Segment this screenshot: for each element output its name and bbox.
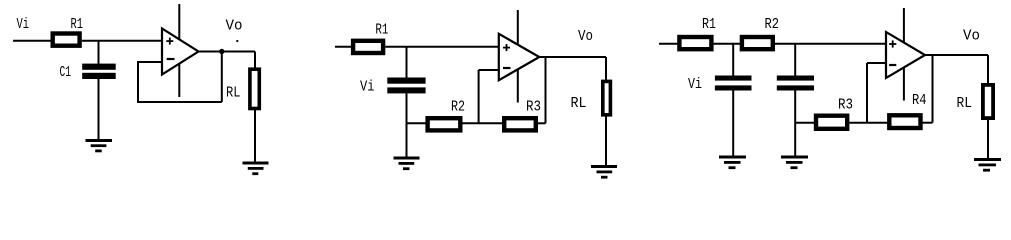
svg-text:R3: R3 bbox=[526, 99, 541, 116]
resistor R1 bbox=[53, 34, 80, 46]
wire: output corner down to RL bbox=[605, 57, 607, 81]
wire: input to R1 bbox=[13, 40, 53, 42]
svg-text:Vo: Vo bbox=[226, 17, 243, 34]
wire: node down to C1 bbox=[98, 41, 100, 64]
wire: node down to capacitor bbox=[406, 47, 408, 78]
wire: capacitor C2 down to R3 branch and ground bbox=[794, 91, 796, 157]
resistor R2 (circuit 3) bbox=[742, 37, 773, 49]
wire: op-amp output to RL branch bbox=[199, 51, 256, 53]
wire: branch to R2 bbox=[407, 122, 429, 124]
resistor R3 (circuit 2) bbox=[504, 118, 536, 130]
wire: R1 to op-amp + input bbox=[82, 40, 162, 42]
wire: feedback riser to output bbox=[932, 55, 934, 123]
wire: R1 to op-amp + input bbox=[385, 46, 499, 48]
svg-text:Vo: Vo bbox=[963, 28, 980, 45]
wire: input to R1 bbox=[335, 46, 353, 48]
wire: C1 to ground bbox=[98, 79, 100, 140]
wire: feedback bottom horizontal bbox=[137, 101, 222, 103]
wire: input to R1 bbox=[659, 43, 680, 45]
wire: minus input stub bbox=[479, 69, 499, 71]
wire: R3 to feedback riser bbox=[538, 122, 546, 124]
wire: op-amp output to RL branch bbox=[925, 54, 988, 56]
op-amp U3 power line bbox=[903, 8, 905, 101]
svg-text:R3: R3 bbox=[838, 97, 853, 114]
ground below capacitor (circuit 2) bbox=[394, 157, 420, 171]
wire: op-amp output to RL branch bbox=[539, 56, 606, 58]
op-amp U3 minus input symbol bbox=[889, 64, 896, 66]
svg-text:Vi: Vi bbox=[688, 76, 702, 93]
op-amp U1 minus input symbol bbox=[167, 58, 175, 60]
resistor RL (circuit 3) bbox=[983, 85, 993, 118]
resistor R1 (circuit 3) bbox=[679, 37, 711, 49]
ground below RL (circuit 2) bbox=[591, 165, 617, 179]
svg-text:C1: C1 bbox=[60, 64, 72, 81]
svg-text:RL: RL bbox=[226, 84, 241, 101]
op-amp U1 plus input symbol bbox=[166, 38, 173, 45]
wire: R2 to R3 bbox=[462, 122, 505, 124]
svg-text:R1: R1 bbox=[71, 16, 84, 33]
wire: R2 to op-amp + input bbox=[775, 43, 886, 45]
wire: RL to ground bbox=[987, 118, 989, 159]
wire: mid node up to minus input bbox=[866, 63, 868, 123]
svg-text:R1: R1 bbox=[375, 22, 388, 39]
svg-text:Vi: Vi bbox=[17, 16, 30, 33]
capacitor C1 bbox=[82, 64, 116, 79]
op-amp U3 plus input symbol bbox=[889, 40, 896, 47]
ground below RL bbox=[243, 162, 269, 176]
resistor R2 (circuit 2) bbox=[428, 118, 461, 130]
ground below C1 (circuit 3) bbox=[719, 156, 746, 170]
wire: feedback left vertical bbox=[137, 61, 139, 102]
wire: RL to ground bbox=[254, 110, 256, 162]
svg-text:RL: RL bbox=[571, 95, 587, 112]
wire: minus input stub bbox=[867, 62, 886, 64]
ground below C1 bbox=[86, 139, 113, 152]
wire: node down to capacitor C1 bbox=[732, 44, 734, 76]
wire: minus input stub bbox=[138, 61, 162, 63]
wire: node down to capacitor C2 bbox=[794, 44, 796, 76]
svg-text:Vo: Vo bbox=[578, 28, 593, 45]
capacitor (circuit 2) bbox=[387, 78, 425, 94]
ground below RL (circuit 3) bbox=[974, 158, 1001, 172]
node: output junction dot bbox=[219, 49, 224, 54]
resistor RL (load) bbox=[250, 69, 259, 108]
op-amp U3 bbox=[886, 32, 925, 78]
wire: feedback riser to output bbox=[545, 57, 547, 123]
wire: capacitor to ground bbox=[406, 93, 408, 157]
svg-text:R2: R2 bbox=[765, 16, 780, 33]
op-amp U2 minus input symbol bbox=[503, 67, 511, 69]
svg-text:Vi: Vi bbox=[360, 79, 375, 96]
resistor RL (circuit 2) bbox=[603, 81, 611, 114]
wire: branch to R3 bbox=[795, 122, 816, 124]
capacitor C2 (circuit 3) bbox=[777, 76, 814, 91]
wire: output corner down to RL bbox=[254, 52, 256, 71]
op-amp U1 power line bbox=[178, 4, 180, 97]
capacitor C1 (circuit 3) bbox=[715, 76, 752, 91]
wire: capacitor C1 to ground bbox=[732, 91, 734, 157]
op-amp U2 power line bbox=[517, 10, 519, 103]
wire: RL to ground bbox=[605, 115, 607, 166]
op-amp U2 bbox=[499, 34, 540, 80]
op-amp U2 plus input symbol bbox=[503, 44, 510, 51]
resistor R3 (circuit 3) bbox=[816, 116, 847, 129]
svg-text:R2: R2 bbox=[451, 99, 465, 116]
svg-text:R1: R1 bbox=[702, 16, 716, 33]
wire: output corner down to RL bbox=[987, 55, 989, 85]
svg-text:R4: R4 bbox=[912, 92, 927, 109]
wire: R4 to feedback riser bbox=[923, 122, 933, 124]
wire: R1 to R2 bbox=[714, 43, 743, 45]
svg-text:RL: RL bbox=[957, 95, 973, 112]
op-amp U1 bbox=[162, 29, 199, 75]
wire: mid node up to minus input bbox=[478, 70, 480, 123]
resistor R4 (circuit 3) bbox=[889, 115, 920, 128]
stray dot below Vo bbox=[236, 40, 238, 42]
wire: R3 to R4 bbox=[849, 122, 887, 124]
ground below C2 (circuit 3) bbox=[781, 156, 808, 170]
resistor R1 (circuit 2) bbox=[353, 41, 383, 53]
wire: feedback right vertical (output to bottom) bbox=[221, 52, 223, 103]
